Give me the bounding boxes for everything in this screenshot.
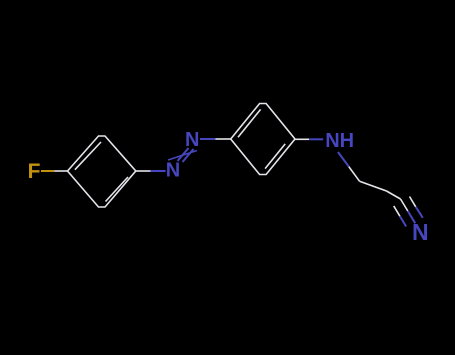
svg-text:N: N (185, 129, 199, 151)
bond ring1 to azo N, N half (151, 170, 166, 172)
azo N=N double bond line 1 (178, 148, 189, 161)
nitrile triple bond center line N half (408, 211, 415, 223)
benzene ring 1 (fluorophenyl) outline (68, 136, 136, 207)
svg-text:NH: NH (325, 130, 354, 152)
bond azo N to ring2, N half (200, 138, 215, 140)
nitrile triple bond lower line N half (400, 216, 406, 226)
bond ring1 to azo N, carbon half (136, 170, 151, 172)
svg-text:F: F (28, 160, 41, 183)
bond F to ring1, carbon half (54, 170, 67, 172)
nitrile triple bond upper line N half (416, 207, 423, 218)
bond C2 to C3 (387, 191, 401, 199)
ring 2 inner double-bond line lower-right (265, 144, 285, 169)
svg-text:N: N (412, 219, 429, 245)
bond azo N to ring2, carbon half (215, 138, 230, 140)
ring 1 inner double-bond line lower-right (106, 177, 129, 202)
nitrile triple bond lower line carbon half (394, 206, 400, 216)
bond ring2 to NH, carbon half (295, 138, 309, 140)
svg-text:N: N (166, 160, 180, 182)
bond C1 to C2 (360, 181, 387, 191)
azo N=N crossing slash (168, 151, 197, 161)
bond ring2 to NH, N half (309, 138, 323, 140)
nitrile triple bond upper line carbon half (410, 197, 416, 207)
bond NH to C1, N half (338, 152, 349, 167)
ring 2 inner double-bond line upper-left (238, 109, 261, 137)
ring 1 inner double-bond line upper-left (75, 142, 101, 170)
nitrile triple bond center line carbon half (401, 199, 408, 211)
bond NH to C1, carbon half (349, 167, 360, 182)
azo N=N double bond line 2 (183, 149, 194, 162)
benzene ring 2 outline (231, 104, 295, 175)
bond F to ring1, F-colored half (41, 170, 54, 172)
